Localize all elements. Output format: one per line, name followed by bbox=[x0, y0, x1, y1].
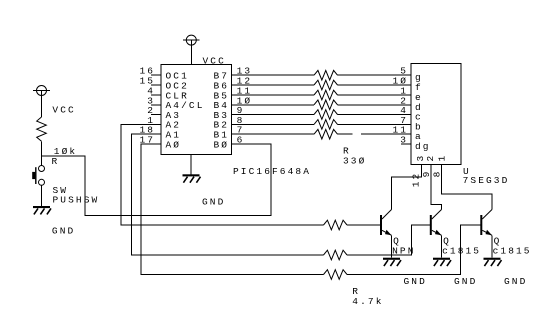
pin 6 (B0) right bbox=[213, 135, 244, 151]
label U bbox=[463, 166, 471, 177]
svg-text:PUSHSW: PUSHSW bbox=[53, 194, 100, 205]
pin 9 (digit2 common) wire to Q2 collector bbox=[431, 165, 441, 210]
transistor Q3 (NPN) bbox=[480, 210, 492, 258]
ground (Q2 emitter) bbox=[433, 258, 451, 266]
label 7SEG3D bbox=[463, 175, 510, 186]
svg-text:GND: GND bbox=[404, 276, 427, 287]
pin 1 (A2) left bbox=[147, 115, 181, 131]
label c1815 (Q3) bbox=[493, 246, 532, 257]
svg-text:c1815: c1815 bbox=[442, 246, 481, 257]
resistor R 330 (B7 line) with wires bbox=[232, 70, 412, 80]
label GND (switch) bbox=[52, 225, 75, 236]
wire node to PIC B0 (via long route) bbox=[42, 144, 272, 216]
pin 16 (OC1) left bbox=[139, 66, 188, 82]
label pin 9 (rotated) bbox=[421, 170, 432, 178]
IC U 7SEG3D body bbox=[411, 64, 461, 165]
pin 11 (a) display bbox=[392, 125, 422, 143]
label R (10k) bbox=[52, 156, 60, 167]
svg-text:R: R bbox=[52, 156, 60, 167]
svg-text:33Ø: 33Ø bbox=[343, 155, 366, 166]
label SW bbox=[53, 185, 69, 196]
pin 18 (A1) left bbox=[139, 125, 181, 141]
wire switch to ground bbox=[41, 185, 43, 206]
label digit 2 (rotated) bbox=[425, 154, 436, 162]
resistor R 4.7k (Q2) bbox=[324, 250, 348, 260]
wire resistor to Q1 base bbox=[347, 224, 380, 226]
svg-text:8: 8 bbox=[431, 170, 442, 178]
svg-text:PIC16F648A: PIC16F648A bbox=[233, 166, 311, 177]
ground (Q3 emitter) bbox=[484, 258, 502, 266]
resistor R 330 (B1 line, open end) bbox=[232, 129, 353, 139]
label PUSHSW bbox=[53, 194, 100, 205]
ground (PIC) bbox=[183, 174, 201, 182]
svg-text:c1815: c1815 bbox=[493, 246, 532, 257]
wire R 10k to switch, node SWNODE bbox=[41, 141, 43, 165]
switch SW PUSHSW bbox=[32, 166, 44, 186]
wire VCC to resistor R 10k bbox=[41, 91, 43, 118]
pin 13 (B7) right bbox=[213, 66, 252, 82]
label VCC (PIC) bbox=[203, 55, 226, 66]
transistor Q2 (NPN) bbox=[430, 210, 442, 258]
label PIC16F648A bbox=[233, 166, 311, 177]
label pin 12 (rotated) bbox=[411, 172, 422, 188]
pin 9 (B3) right bbox=[213, 105, 244, 121]
pin 2 (d) display bbox=[400, 95, 423, 113]
pin 8 (B2) right bbox=[213, 115, 244, 131]
label GND (Q2) bbox=[454, 276, 477, 287]
pin 12 (digit3 common) wire to Q1 collector bbox=[392, 165, 422, 210]
resistor R 330 (B5 line) with wires bbox=[232, 90, 412, 100]
svg-text:AØ: AØ bbox=[166, 139, 182, 150]
pin 15 (OC2) left bbox=[139, 76, 188, 92]
svg-text:NPN: NPN bbox=[392, 246, 415, 257]
pin 4 (c) display bbox=[400, 105, 423, 123]
svg-text:VCC: VCC bbox=[52, 105, 75, 116]
pin 2 (A3) left bbox=[147, 105, 181, 121]
resistor R 10k bbox=[37, 117, 47, 141]
op: IC PIC16F648A body bbox=[161, 65, 232, 155]
pin 3 (dg) display bbox=[400, 135, 430, 153]
pin 4 (CLR) left bbox=[147, 86, 189, 102]
pin 10 (f) display bbox=[392, 76, 422, 94]
label c1815 (Q2) bbox=[442, 246, 481, 257]
svg-text:GND: GND bbox=[202, 197, 225, 208]
svg-text:BØ: BØ bbox=[213, 139, 229, 150]
svg-text:6: 6 bbox=[237, 135, 245, 146]
ground (Q1 emitter) bbox=[383, 258, 401, 266]
wire resistor to Q3 base bbox=[347, 225, 480, 275]
svg-text:GND: GND bbox=[52, 225, 75, 236]
svg-text:4.7k: 4.7k bbox=[352, 296, 383, 307]
label GND (PIC) bbox=[202, 197, 225, 208]
resistor R 330 (B4 line) with wires bbox=[232, 100, 412, 110]
label Q (Q3) bbox=[494, 236, 502, 247]
pin 10 (B4) right bbox=[213, 95, 252, 111]
svg-text:VCC: VCC bbox=[203, 55, 226, 66]
label digit 1 (rotated) bbox=[437, 154, 448, 162]
svg-text:1: 1 bbox=[437, 154, 448, 162]
svg-text:7SEG3D: 7SEG3D bbox=[463, 175, 510, 186]
svg-text:dg: dg bbox=[415, 141, 431, 152]
power flag VCC (PIC) bbox=[183, 35, 200, 45]
label VCC (pull-up) bbox=[52, 105, 75, 116]
svg-text:9: 9 bbox=[421, 170, 432, 178]
pin 1 (e) display bbox=[400, 86, 423, 104]
label 330 bbox=[343, 155, 366, 166]
transistor Q1 (NPN) bbox=[380, 210, 392, 258]
pin 8 (digit1 common) wire to Q3 collector bbox=[442, 165, 493, 210]
label Q (Q1) bbox=[393, 236, 401, 247]
pin 3 (A4/CL) left bbox=[147, 95, 204, 111]
resistor R 4.7k (Q1) bbox=[324, 220, 348, 230]
resistor R 330 (B3 line) with wires bbox=[232, 110, 412, 120]
svg-text:12: 12 bbox=[411, 172, 422, 188]
label digit 3 (rotated) bbox=[415, 154, 426, 162]
svg-text:2: 2 bbox=[425, 154, 436, 162]
pin 17 (A0) left bbox=[139, 135, 181, 151]
label R (330) bbox=[343, 145, 351, 156]
ground (switch) bbox=[33, 206, 51, 214]
wire A1 to resistor 4.7k (Q2 base bus) bbox=[131, 134, 323, 255]
label GND (Q3) bbox=[504, 276, 527, 287]
label 10k bbox=[54, 146, 77, 157]
wire VCC to PIC top bbox=[190, 40, 192, 64]
label NPN (Q1) bbox=[392, 246, 415, 257]
pin 12 (B6) right bbox=[213, 76, 252, 92]
svg-text:3: 3 bbox=[400, 135, 408, 146]
wire display pin 11 stub bbox=[361, 133, 411, 135]
label Q (Q2) bbox=[443, 236, 451, 247]
label GND (Q1) bbox=[404, 276, 427, 287]
power flag VCC (pull-up supply) bbox=[33, 86, 50, 96]
resistor R 4.7k (Q3) bbox=[324, 270, 348, 280]
label pin 8 (rotated) bbox=[431, 170, 442, 178]
resistor R 330 (B6 line) with wires bbox=[232, 80, 412, 90]
pin 5 (g) display bbox=[400, 66, 423, 84]
svg-text:GND: GND bbox=[454, 276, 477, 287]
wire A0 to resistor 4.7k (Q3 base bus) bbox=[141, 144, 323, 275]
label 4.7k bbox=[352, 296, 383, 307]
wire resistor to Q2 base bbox=[347, 225, 430, 255]
svg-text:GND: GND bbox=[504, 276, 527, 287]
label R (4.7k) bbox=[352, 286, 360, 297]
pin 11 (B5) right bbox=[213, 86, 252, 102]
wire A2 to resistor 4.7k (Q1 base bus) bbox=[121, 124, 324, 225]
wire PIC bottom to ground bbox=[190, 155, 192, 175]
pin 7 (B1) right bbox=[213, 125, 244, 141]
pin 7 (b) display bbox=[400, 115, 423, 132]
resistor R 330 (B2 line) with wires bbox=[232, 120, 412, 130]
